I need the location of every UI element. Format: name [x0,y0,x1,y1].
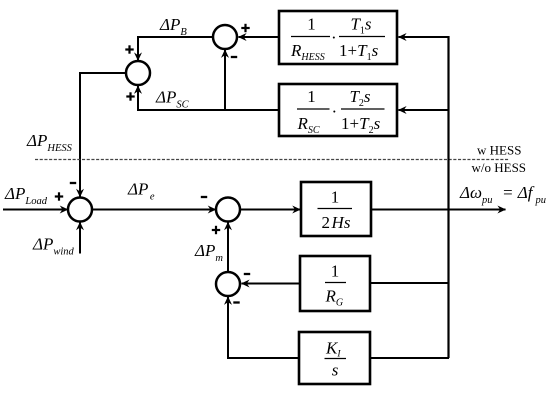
wire branch from ΔP_SC junction up to S1 bottom input [224,50,226,110]
block G2 transfer function 1/R_SC * T2s/(1+T2s) [279,84,397,136]
svg-text:1: 1 [331,262,340,281]
sign minus at S5 right input [244,273,250,275]
svg-text:w HESS: w HESS [477,143,521,158]
dashed separator line (w HESS / w/o HESS) [35,159,509,161]
wire ΔP_wind input to S3 bottom input [79,222,81,253]
wire feedback to G5 input [370,357,449,359]
sign minus at S4 left input [201,196,207,198]
svg-text:1: 1 [307,15,316,34]
svg-text:s: s [332,361,339,380]
wire ΔP_Load input to S3 left input [3,209,68,211]
wire S3 output (ΔP_e) to S4 left input [92,209,216,211]
wire G1 output to S1 right input [239,36,280,38]
summing junction S4 (ΔP_e and ΔP_m sum) [216,198,240,222]
summing junction S5 (governor/integrator sum, forms ΔP_m) [216,272,240,296]
wire G5 output left then up to S5 bottom input [227,297,299,359]
sign minus at S1 bottom input [231,56,237,58]
block G5 transfer function K_I/s (integral controller) [299,332,370,384]
svg-text:·: · [331,28,337,47]
svg-text:1+T1s: 1+T1s [339,41,379,63]
wire S4 output to G3 input [240,209,300,211]
sign plus at S2 bottom input [126,92,134,100]
wire G3 output to system output arrow [371,209,506,211]
sign plus at S1 right input [241,24,249,32]
svg-text:2Hs: 2Hs [322,213,351,232]
summing junction S3 (load/wind/HESS sum) [68,198,92,222]
wire S1 output left then down to S2 top input [137,36,212,61]
block G1 transfer function 1/R_HESS * T1s/(1+T1s) [279,11,397,64]
wire G2 output (ΔP_SC) to S2 bottom input [137,86,279,111]
summing junction S2 (forms ΔP_HESS) [126,61,150,85]
wire feedback to G2 input [399,109,450,111]
sign minus at S3 top input [70,182,76,184]
wire S2 output (ΔP_HESS) left then down to S3 top input [79,72,126,197]
wire feedback to G1 input [399,36,450,38]
sign plus at S4 bottom input [212,226,220,234]
block G4 transfer function 1/R_G (governor droop) [300,256,370,311]
feedback vertical wire (Δω tap) [447,36,449,358]
block G3 transfer function 1/2Hs (inertia) [301,182,371,236]
svg-text:1: 1 [331,188,340,207]
wire G4 output to S5 right input [242,283,301,285]
sign plus at S2 top input [125,45,133,53]
svg-text:w/o HESS: w/o HESS [472,160,527,175]
sign minus at S5 bottom input [233,301,239,303]
summing junction S1 (forms ΔP_B) [213,25,237,49]
sign plus at S3 left input [55,192,63,200]
svg-text:1: 1 [307,87,316,106]
wire feedback to G4 input [370,282,449,284]
svg-text:1+T2s: 1+T2s [341,114,381,136]
svg-text:·: · [332,102,338,121]
wire S5 output (ΔP_m) up to S4 bottom input [227,222,229,272]
